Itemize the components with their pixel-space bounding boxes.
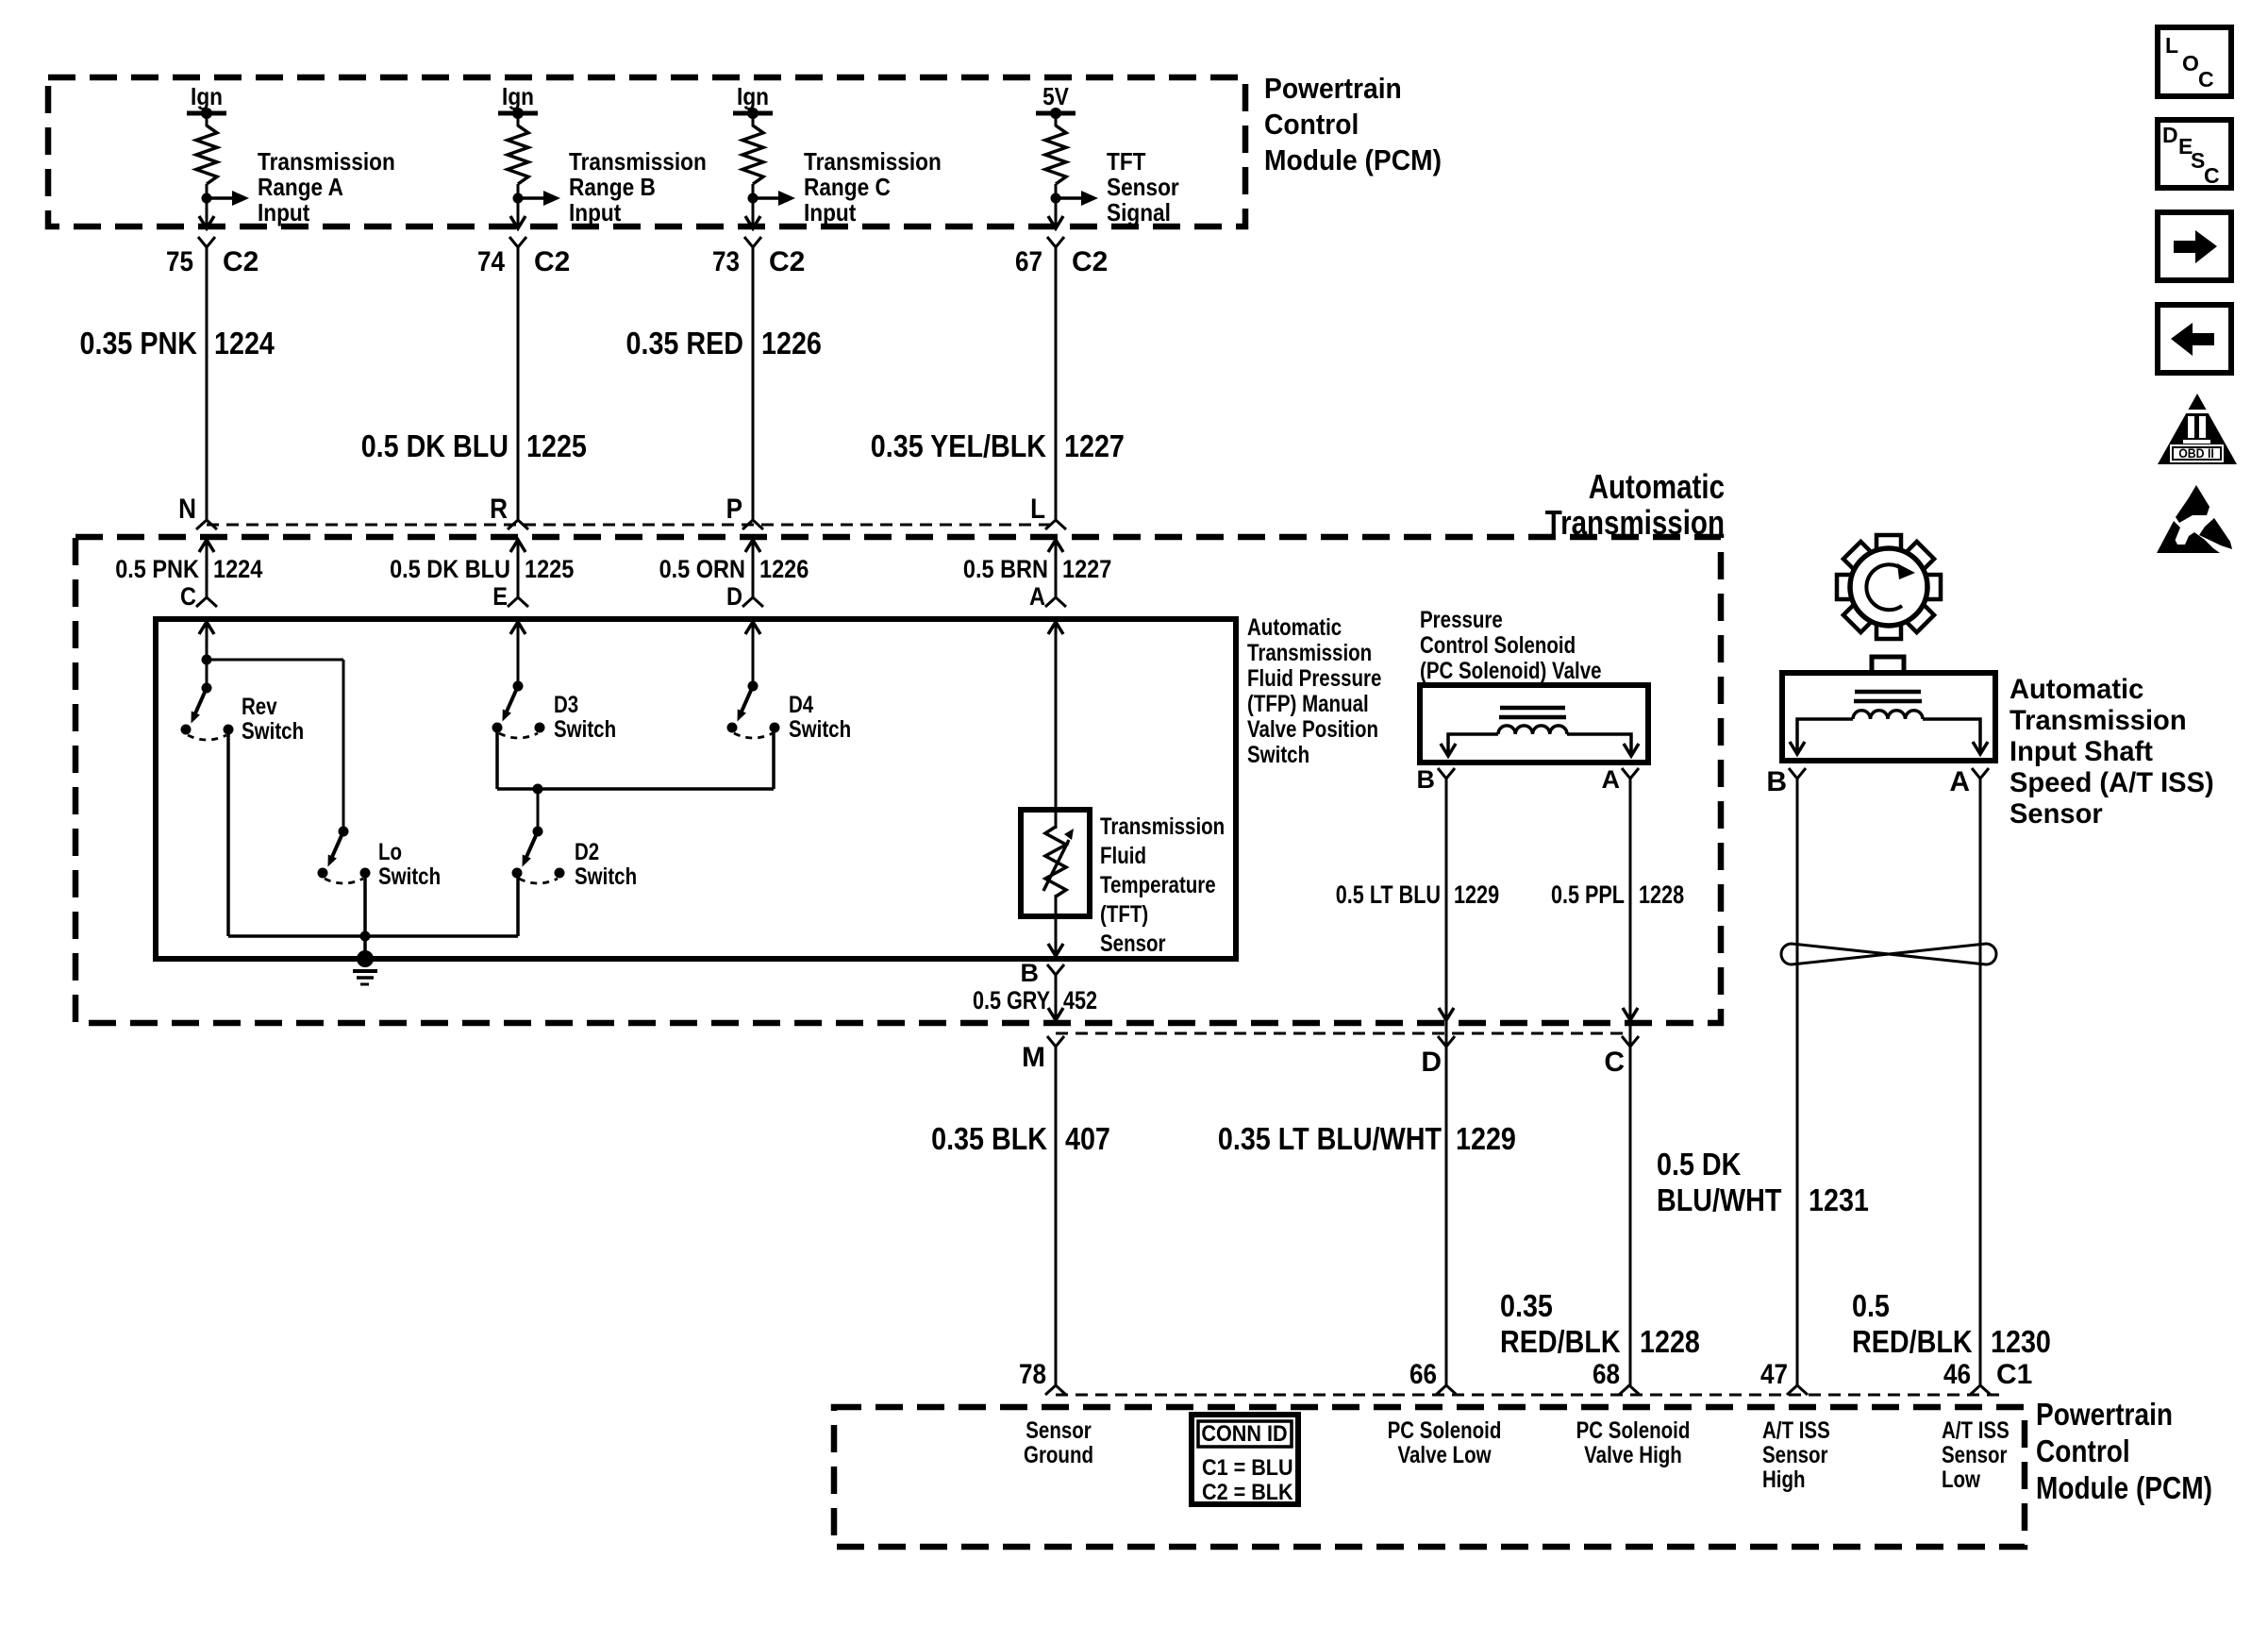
svg-text:PC Solenoid: PC Solenoid [1576, 1417, 1691, 1444]
pickup coil L2 (A/T ISS sensor) [1855, 690, 1921, 695]
gear rotation arrowhead [1897, 563, 1915, 579]
arrow out of transmission at D [1439, 1008, 1454, 1020]
svg-text:Input: Input [258, 198, 310, 226]
svg-text:C2: C2 [534, 246, 570, 277]
arrow into TFP switch at D [745, 622, 760, 634]
wire R4 bottom lead [1055, 184, 1058, 228]
arrow into TFP switch at E [510, 622, 525, 634]
svg-text:Input Shaft: Input Shaft [2010, 736, 2153, 767]
arrow into transmission at C [199, 540, 214, 552]
svg-text:C1: C1 [1996, 1359, 2032, 1390]
A/T ISS sensor box [1782, 673, 1995, 761]
TFP Manual Valve Position Switch box [156, 619, 1236, 959]
svg-text:Sensor: Sensor [1107, 173, 1179, 201]
svg-text:0.5 DK BLU: 0.5 DK BLU [361, 428, 509, 463]
svg-text:Ground: Ground [1024, 1442, 1093, 1468]
svg-text:Switch: Switch [789, 716, 851, 743]
wire inside TFT box bottom [1055, 895, 1058, 916]
resistor R2 (pull-up) [508, 126, 528, 184]
icon ESD triangle [2176, 485, 2210, 523]
wire R3 bottom lead [752, 184, 755, 228]
svg-text:407: 407 [1065, 1121, 1110, 1156]
junction power/R4 [1050, 108, 1061, 119]
arrow into transmission at E [510, 540, 525, 552]
ground symbol bar2 [357, 976, 374, 980]
connector C2 pin 73 [744, 237, 761, 247]
svg-text:B: B [1021, 959, 1040, 987]
connector at TFT pin B [1047, 964, 1064, 975]
svg-text:BLU/WHT: BLU/WHT [1657, 1182, 1781, 1217]
connector male half at L [1045, 520, 1066, 529]
power rail bar R2 [498, 111, 538, 116]
svg-text:1230: 1230 [1991, 1324, 2051, 1359]
junction power/R2 [512, 108, 524, 119]
arrow out of TFP box at B [1048, 944, 1063, 956]
junction ground bus [360, 931, 371, 942]
svg-text:R: R [490, 494, 508, 525]
arrow into transmission at A [1048, 540, 1063, 552]
svg-text:Valve Low: Valve Low [1397, 1442, 1492, 1468]
wire 1229 from PC solenoid B down [1445, 779, 1448, 1385]
inline harness connector (thin dashed) [207, 524, 1056, 527]
arrow into TFP switch at C [199, 622, 214, 634]
svg-text:Ign: Ign [502, 82, 534, 110]
svg-text:Sensor: Sensor [2010, 798, 2103, 830]
wire R2 top lead [517, 113, 520, 126]
power rail bar R3 [733, 111, 773, 116]
svg-text:0.5 ORN: 0.5 ORN [659, 555, 745, 583]
svg-text:TFT: TFT [1107, 147, 1146, 176]
node R4 signal tap [1051, 193, 1061, 204]
svg-text:Control: Control [2036, 1433, 2130, 1468]
svg-text:75: 75 [166, 246, 193, 277]
connector male half at PCM pin 47 [1787, 1385, 1808, 1395]
svg-text:1227: 1227 [1062, 555, 1111, 583]
ground symbol bar1 [353, 969, 377, 973]
svg-text:Sensor: Sensor [1026, 1417, 1092, 1444]
svg-text:78: 78 [1019, 1359, 1046, 1390]
connector male half at PCM pin 68 [1619, 1385, 1640, 1395]
svg-text:Transmission: Transmission [569, 147, 707, 176]
wire E to D3 switch pivot [517, 622, 520, 686]
icon back arrow [2193, 333, 2214, 345]
svg-text:1226: 1226 [759, 555, 809, 583]
CONN ID header box [1198, 1421, 1292, 1447]
svg-text:0.5 BRN: 0.5 BRN [963, 555, 1048, 583]
wire 1225 inside transmission [517, 540, 520, 597]
junction node C branch [202, 655, 212, 665]
svg-text:M: M [1022, 1042, 1045, 1073]
svg-text:L: L [2165, 33, 2178, 58]
thermistor TFT zigzag [1045, 827, 1066, 897]
svg-text:0.35 BLK: 0.35 BLK [931, 1121, 1047, 1156]
resistor R3 (pull-up) [742, 126, 763, 184]
svg-text:D: D [2162, 123, 2178, 147]
connector at ISS pin B [1789, 768, 1806, 779]
signal tap arrow R1 [207, 196, 232, 200]
svg-text:Temperature: Temperature [1100, 872, 1216, 898]
svg-text:Transmission: Transmission [1247, 640, 1372, 666]
wire R3 top lead [752, 113, 755, 126]
node R2 signal tap [513, 193, 524, 204]
svg-text:B: B [1766, 766, 1787, 797]
signal tap arrow R2 [518, 196, 543, 200]
svg-text:(TFP) Manual: (TFP) Manual [1247, 691, 1369, 717]
svg-text:C2 = BLK: C2 = BLK [1202, 1480, 1293, 1505]
wire inside TFT box top [1055, 810, 1058, 829]
svg-text:RED/BLK: RED/BLK [1500, 1324, 1621, 1359]
node R3 signal tap [748, 193, 759, 204]
wire 1227 inside transmission [1055, 540, 1058, 597]
wire D2 output down [516, 873, 520, 936]
ground symbol bar3 [360, 983, 369, 986]
connector at ISS pin A [1972, 768, 1989, 779]
svg-text:Switch: Switch [575, 863, 637, 890]
wire 1230 from ISS A down [1979, 779, 1982, 1385]
gear rotation arrow arc [1866, 564, 1904, 610]
connector at TFP pin A [1045, 597, 1066, 607]
svg-text:D3: D3 [554, 692, 578, 718]
svg-text:E: E [492, 582, 508, 611]
svg-text:Fluid: Fluid [1100, 843, 1146, 869]
svg-text:C1 = BLU: C1 = BLU [1202, 1455, 1293, 1481]
svg-text:A: A [1029, 582, 1045, 611]
connector at TFP pin E [508, 597, 528, 607]
twisted pair symbol [1781, 944, 1996, 964]
wire from pin 75 down to inline connector [206, 247, 208, 520]
svg-text:Input: Input [569, 198, 622, 226]
wire R1 top lead [206, 113, 208, 126]
connector at TFP pin C [196, 597, 217, 607]
wire A to TFT sensor [1055, 622, 1058, 810]
svg-text:CONN ID: CONN ID [1201, 1421, 1287, 1447]
svg-text:0.5 PPL: 0.5 PPL [1551, 880, 1625, 909]
switch D3 (D3 Switch) [513, 681, 524, 692]
svg-text:Automatic: Automatic [2010, 674, 2143, 705]
svg-text:Powertrain: Powertrain [2036, 1397, 2173, 1432]
wire TFT sensor to pin B [1055, 916, 1058, 956]
svg-text:Sensor: Sensor [1100, 930, 1166, 957]
arrow out of transmission at C [1623, 1008, 1638, 1020]
switch D4 (D4 Switch) [748, 681, 759, 692]
wire down to Lo switch pivot [342, 660, 345, 831]
junction power/R3 [747, 108, 759, 119]
svg-text:Range C: Range C [804, 173, 891, 201]
node R1 signal tap [202, 193, 212, 204]
wire rail to D2 pivot [537, 789, 540, 831]
Powertrain Control Module (PCM) box (top, dashed) [48, 77, 1245, 226]
svg-text:C2: C2 [769, 246, 805, 277]
svg-text:1224: 1224 [213, 555, 262, 583]
svg-text:L: L [1030, 494, 1045, 525]
inline connector (thin dashed) bottom of transmission [1056, 1032, 1629, 1035]
arrow out of PCM at pin 67 [1048, 216, 1063, 228]
arrow out of PCM at pin 74 [510, 216, 525, 228]
svg-text:OBD II: OBD II [2178, 445, 2214, 461]
svg-text:P: P [726, 494, 742, 525]
wire from pin 74 down to inline connector [517, 247, 520, 520]
svg-text:Transmission: Transmission [258, 147, 395, 176]
ground connection dot [357, 950, 374, 967]
svg-text:Switch: Switch [1247, 742, 1309, 768]
wire branch to Lo switch [207, 659, 343, 662]
svg-text:0.5 DK: 0.5 DK [1657, 1147, 1742, 1182]
icon forward arrow box [2158, 212, 2231, 280]
resistor R1 (pull-up) [196, 126, 217, 184]
wire from pin 73 down to inline connector [752, 247, 755, 520]
svg-text:Transmission: Transmission [804, 147, 942, 176]
svg-text:Pressure: Pressure [1420, 607, 1503, 633]
svg-text:0.5: 0.5 [1852, 1288, 1890, 1323]
svg-text:Sensor: Sensor [1762, 1442, 1828, 1468]
wire R4 top lead [1055, 113, 1058, 126]
svg-text:Ign: Ign [191, 82, 223, 110]
wire 1226 inside transmission [752, 540, 755, 597]
svg-text:Control Solenoid: Control Solenoid [1420, 632, 1576, 659]
svg-text:Transmission: Transmission [2010, 705, 2187, 736]
svg-text:Rev: Rev [242, 694, 277, 720]
svg-text:A/T ISS: A/T ISS [1942, 1417, 2010, 1444]
svg-text:0.35 YEL/BLK: 0.35 YEL/BLK [871, 428, 1046, 463]
svg-text:C: C [1604, 1047, 1625, 1078]
svg-text:46: 46 [1943, 1359, 1971, 1390]
svg-text:A: A [1602, 765, 1621, 794]
icon LOC box [2158, 27, 2231, 96]
wire 1231 from ISS B down [1796, 779, 1799, 1385]
wire 1224 inside transmission [206, 540, 208, 597]
arrow out of PCM at pin 75 [199, 216, 214, 228]
connector C2 pin 67 [1047, 237, 1064, 247]
svg-text:Automatic: Automatic [1589, 467, 1725, 506]
wire Lo switch output down [363, 873, 367, 936]
thermistor TFT arrow shaft [1043, 840, 1069, 891]
ISS sensor mount nub [1872, 657, 1904, 673]
thermistor TFT arrowhead [1064, 829, 1074, 840]
svg-text:N: N [178, 494, 196, 525]
svg-text:Control: Control [1264, 108, 1359, 141]
svg-text:0.5 GRY: 0.5 GRY [973, 986, 1050, 1014]
svg-text:0.35 RED: 0.35 RED [626, 326, 744, 360]
arrow into TFP switch at A [1048, 622, 1063, 634]
svg-text:C: C [180, 582, 196, 611]
junction power/R1 [201, 108, 212, 119]
svg-text:A: A [1949, 766, 1970, 797]
wire 1228 from PC solenoid A down [1629, 779, 1632, 1385]
svg-text:73: 73 [712, 246, 740, 277]
connector male half at N [196, 520, 217, 529]
svg-text:D: D [726, 582, 742, 611]
wire D4 output down [772, 728, 775, 789]
svg-text:66: 66 [1409, 1359, 1437, 1390]
icon OBD II triangle [2158, 394, 2237, 464]
svg-text:Switch: Switch [378, 863, 441, 890]
svg-text:1227: 1227 [1064, 428, 1125, 463]
wire 452 segment [1055, 975, 1058, 1020]
wire 407 down to PCM pin 78 [1055, 1047, 1058, 1385]
junction D3/D4 rail to D2 [533, 784, 543, 795]
svg-text:Switch: Switch [554, 716, 616, 743]
power rail bar R4 [1036, 111, 1076, 116]
svg-text:Ign: Ign [737, 82, 769, 110]
svg-text:1224: 1224 [214, 326, 275, 360]
svg-text:1228: 1228 [1639, 880, 1684, 909]
svg-text:D2: D2 [575, 839, 599, 865]
svg-text:0.35: 0.35 [1500, 1288, 1553, 1323]
svg-text:Fluid Pressure: Fluid Pressure [1247, 665, 1381, 692]
wire R2 bottom lead [517, 184, 520, 228]
inline connector (thin dashed) at PCM [1056, 1394, 2000, 1397]
arrow into transmission at D [745, 540, 760, 552]
svg-text:1226: 1226 [761, 326, 822, 360]
power rail bar R1 [187, 111, 226, 116]
svg-text:5V: 5V [1042, 82, 1069, 110]
svg-text:1225: 1225 [525, 555, 574, 583]
svg-text:Automatic: Automatic [1247, 614, 1342, 641]
svg-text:Range B: Range B [569, 173, 656, 201]
svg-text:1225: 1225 [526, 428, 587, 463]
svg-text:452: 452 [1063, 986, 1097, 1014]
PC Solenoid valve box [1420, 685, 1648, 763]
TFT sensor box [1021, 810, 1090, 916]
svg-text:RED/BLK: RED/BLK [1852, 1324, 1973, 1359]
wire from pin 67 down to inline connector [1055, 247, 1058, 520]
connector male half at PCM pin 66 [1436, 1385, 1457, 1395]
connector half at M [1047, 1036, 1064, 1047]
svg-text:B: B [1417, 765, 1436, 794]
CONN ID legend box [1192, 1415, 1298, 1504]
svg-text:Switch: Switch [242, 718, 304, 745]
switch Lo (Lo Switch) [339, 827, 349, 837]
connector C2 pin 75 [198, 237, 215, 247]
connector C2 pin 74 [509, 237, 526, 247]
svg-text:(TFT): (TFT) [1100, 901, 1148, 928]
svg-text:High: High [1762, 1467, 1806, 1493]
gear icon (input shaft) [1876, 535, 1901, 550]
switch Rev (Rev Switch) [202, 683, 212, 694]
svg-text:D: D [1421, 1047, 1442, 1078]
svg-text:0.5 LT BLU: 0.5 LT BLU [1336, 880, 1441, 909]
connector male half at R [508, 520, 528, 529]
resistor R4 (pull-up) [1045, 126, 1066, 184]
svg-text:Input: Input [804, 198, 857, 226]
svg-text:1231: 1231 [1809, 1182, 1869, 1217]
wire to case ground [363, 936, 367, 959]
signal tap arrow R4 [1056, 196, 1081, 200]
svg-text:Speed (A/T ISS): Speed (A/T ISS) [2010, 767, 2214, 798]
svg-text:O: O [2182, 51, 2199, 75]
svg-text:1228: 1228 [1640, 1324, 1700, 1359]
svg-text:0.35 LT BLU/WHT: 0.35 LT BLU/WHT [1218, 1121, 1442, 1156]
svg-text:PC Solenoid: PC Solenoid [1388, 1417, 1502, 1444]
signal tap arrow R3 [753, 196, 778, 200]
svg-text:74: 74 [477, 246, 505, 277]
svg-text:C2: C2 [223, 246, 258, 277]
svg-text:Transmission: Transmission [1545, 503, 1725, 542]
svg-text:Signal: Signal [1107, 198, 1171, 226]
wire Rev switch output down [226, 729, 230, 936]
svg-text:Valve High: Valve High [1584, 1442, 1682, 1468]
svg-text:Sensor: Sensor [1942, 1442, 2008, 1468]
svg-text:Powertrain: Powertrain [1264, 72, 1402, 105]
arrow out of PCM at pin 73 [745, 216, 760, 228]
svg-text:C2: C2 [1072, 246, 1108, 277]
svg-text:A/T ISS: A/T ISS [1762, 1417, 1830, 1444]
svg-text:Range A: Range A [258, 173, 343, 201]
svg-text:47: 47 [1760, 1359, 1788, 1390]
svg-text:0.5 DK BLU: 0.5 DK BLU [390, 555, 510, 583]
connector at PC solenoid pin B [1438, 768, 1455, 779]
connector half at D [1438, 1036, 1455, 1047]
svg-text:67: 67 [1015, 246, 1042, 277]
wire R1 bottom lead [206, 184, 208, 228]
Automatic Transmission box (dashed) [75, 537, 1721, 1023]
connector male half at PCM pin 78 [1045, 1385, 1066, 1395]
svg-text:Transmission: Transmission [1100, 813, 1225, 840]
Powertrain Control Module (PCM) box (bottom, dashed) [834, 1407, 2025, 1547]
connector at TFP pin D [742, 597, 763, 607]
svg-text:C: C [2198, 67, 2214, 92]
svg-text:0.5 PNK: 0.5 PNK [115, 555, 199, 583]
wire D3/D4 common rail [497, 787, 774, 791]
icon DESC box [2158, 120, 2231, 188]
svg-text:Valve Position: Valve Position [1247, 716, 1378, 743]
connector male half at PCM pin 46 [1970, 1385, 1991, 1395]
svg-text:Module (PCM): Module (PCM) [2036, 1470, 2212, 1505]
icon forward arrow [2174, 241, 2195, 253]
connector at PC solenoid pin A [1622, 768, 1639, 779]
svg-text:C: C [2204, 163, 2220, 188]
svg-text:0.35 PNK: 0.35 PNK [80, 326, 198, 360]
connector male half at P [742, 520, 763, 529]
connector half at C [1622, 1036, 1639, 1047]
icon back arrow box [2158, 305, 2231, 373]
svg-text:(PC Solenoid) Valve: (PC Solenoid) Valve [1420, 658, 1602, 684]
wire D3 output down [495, 728, 499, 789]
svg-text:68: 68 [1593, 1359, 1620, 1390]
svg-text:D4: D4 [789, 692, 813, 718]
svg-text:1229: 1229 [1456, 1121, 1516, 1156]
svg-text:Low: Low [1942, 1467, 1980, 1493]
svg-text:1229: 1229 [1454, 880, 1499, 909]
svg-text:Module (PCM): Module (PCM) [1264, 143, 1442, 176]
arrow out of transmission at M [1048, 1008, 1063, 1020]
svg-text:Lo: Lo [378, 839, 402, 865]
wire D to D4 switch pivot [752, 622, 755, 686]
switch D2 (D2 Switch) [533, 827, 543, 837]
wire C to Rev switch pivot [206, 622, 208, 688]
solenoid coil L1 (PC solenoid) [1500, 706, 1565, 711]
wire ground bus [228, 934, 518, 938]
